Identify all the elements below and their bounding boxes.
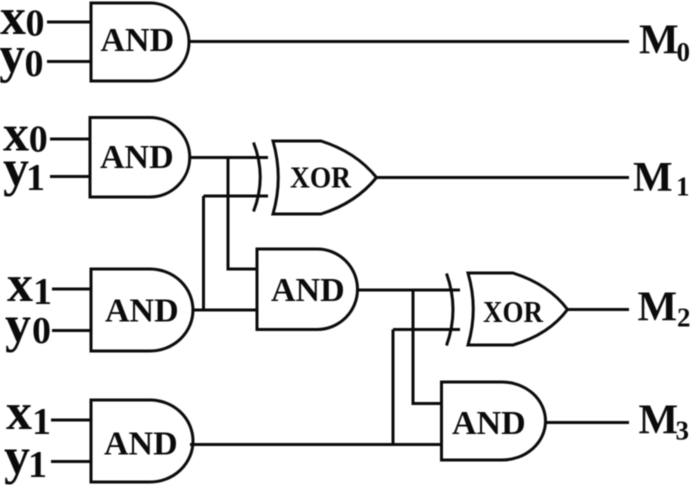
svg-text:AND: AND: [105, 293, 179, 330]
svg-text:1: 1: [28, 444, 47, 485]
and gate AND4 body: [91, 400, 193, 482]
wire XOR1 output to M1: [377, 176, 629, 179]
wire AND2 output to XOR1 top input: [189, 156, 268, 159]
wire x1 input to AND4: [51, 419, 91, 422]
wire AND5 output to XOR2 top input: [357, 289, 460, 292]
wire vertical branch AND5 output down to AND6 top input: [413, 290, 442, 404]
svg-text:M: M: [633, 155, 673, 201]
svg-text:AND: AND: [100, 139, 174, 176]
wire XOR1 bottom input: [204, 195, 269, 198]
wire XOR2 output to M2: [567, 308, 629, 311]
xor gate XOR2 body: [468, 273, 568, 345]
wire vertical from AND4 output up to XOR2 bottom input: [392, 330, 395, 445]
xor gate XOR1 input arc: [254, 143, 261, 212]
xor gate XOR1 body: [273, 141, 377, 214]
svg-text:M: M: [639, 398, 679, 444]
svg-text:3: 3: [676, 416, 690, 446]
wire XOR2 bottom input: [393, 328, 460, 331]
svg-text:XOR: XOR: [483, 294, 544, 329]
svg-text:1: 1: [33, 271, 52, 313]
svg-text:y: y: [4, 429, 30, 485]
svg-text:AND: AND: [101, 22, 175, 59]
wire AND4 output to AND6 bottom input: [190, 443, 442, 446]
wire y1 input to AND2: [50, 175, 90, 178]
svg-text:y: y: [5, 297, 31, 354]
svg-text:AND: AND: [104, 426, 178, 463]
svg-text:0: 0: [29, 119, 48, 161]
wire x0 input to AND1: [47, 21, 91, 24]
svg-text:AND: AND: [452, 405, 526, 442]
wire AND6 output to M3: [545, 421, 629, 424]
svg-text:M: M: [638, 285, 678, 331]
and gate AND1 body: [91, 3, 189, 81]
and gate AND6 body: [442, 382, 546, 460]
wire x0 input to AND2: [50, 138, 90, 141]
svg-text:1: 1: [676, 172, 690, 202]
svg-text:y: y: [0, 27, 25, 84]
svg-text:0: 0: [677, 37, 691, 67]
and gate AND5 body (carry): [257, 249, 357, 330]
svg-text:XOR: XOR: [290, 160, 352, 195]
wire x1 input to AND3: [52, 288, 91, 291]
wire y0 input to AND1: [47, 60, 91, 63]
wire vertical branch AND2 output down: [228, 158, 257, 270]
svg-text:0: 0: [25, 43, 44, 85]
wire y1 input to AND4: [51, 460, 91, 463]
wire vertical from AND3 output up to XOR1 bottom input: [202, 196, 205, 310]
svg-text:1: 1: [32, 401, 51, 443]
svg-text:0: 0: [26, 3, 45, 45]
svg-text:0: 0: [32, 310, 51, 352]
xor gate XOR2 input arc: [447, 274, 454, 346]
svg-text:1: 1: [26, 157, 45, 199]
and gate AND2 body: [90, 118, 190, 198]
svg-text:AND: AND: [271, 272, 345, 309]
and gate AND3 body: [91, 269, 193, 351]
wire AND3 output to AND5 bottom input: [192, 309, 257, 312]
wire AND1 output to M0: [188, 40, 629, 43]
svg-text:2: 2: [677, 303, 691, 333]
wire y0 input to AND3: [52, 329, 91, 332]
svg-text:M: M: [639, 18, 679, 64]
